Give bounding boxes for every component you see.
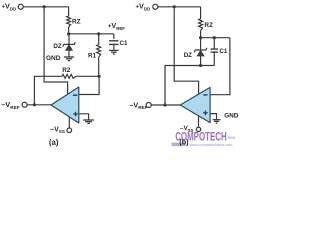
-VREF terminal (b) [146, 103, 151, 108]
resistor RZ (a) [67, 16, 71, 27]
wire C1 top (b) [213, 38, 215, 49]
svg-text:C1: C1 [219, 48, 227, 55]
svg-text:RZ: RZ [72, 18, 81, 25]
svg-text:GND: GND [224, 112, 239, 119]
+VDD terminal (b) [153, 4, 158, 9]
-VSS terminal (a) [67, 128, 72, 133]
svg-text:GND: GND [46, 55, 61, 62]
resistor R2 (a) [62, 74, 76, 78]
watermark COMPOTECH Asia [172, 130, 236, 148]
wire DZ to ground (a) [68, 50, 70, 56]
wire R2 to inverting node (a) [76, 75, 99, 77]
wire feedback to inverting input (b) [210, 38, 230, 95]
wire C1 to ground (a) [113, 44, 115, 50]
wire R1 top (a) [98, 34, 100, 45]
svg-text:RZ: RZ [204, 22, 213, 29]
wire output (b) [151, 104, 180, 106]
svg-text:(a): (a) [49, 138, 59, 147]
wire +VDD rail (a) [23, 6, 69, 8]
wire node rail (b) [201, 37, 230, 39]
capacitor C1 (a) [109, 41, 118, 45]
wire output to R2 (a) [34, 76, 62, 105]
junction DZ anode on rail (b) [199, 64, 202, 67]
svg-text:C1: C1 [120, 40, 128, 47]
zener diode DZ (b) [194, 48, 207, 56]
svg-text:DZ: DZ [184, 52, 192, 59]
node RZ/DZ junction (b) [199, 36, 202, 39]
wire node to DZ (b) [200, 38, 202, 50]
resistor R1 (a) [97, 45, 101, 58]
op-amp U1 (a) [51, 87, 79, 123]
wire R1 bottom (a) [98, 57, 100, 76]
svg-text:Asia: Asia [228, 135, 236, 140]
svg-text:R2: R2 [62, 67, 71, 74]
wire output (a) [27, 104, 51, 106]
ground at + input (a) [83, 120, 94, 123]
svg-text:R1: R1 [88, 53, 97, 60]
wire C1 top (a) [113, 34, 115, 39]
wire RZ top (a) [68, 7, 70, 16]
wire inverting input (a) [79, 76, 99, 94]
wire non-inverting input to ground (a) [79, 114, 89, 120]
wire node to DZ (a) [68, 34, 70, 44]
wire DZ to rail (b) [200, 56, 202, 66]
-VSS terminal (b) [196, 127, 200, 131]
wire RZ top (b) [200, 7, 202, 19]
capacitor C1 (b) [211, 49, 218, 52]
junction output/feedback (a) [33, 103, 36, 106]
ground below C1 (a) [109, 50, 118, 54]
+VDD terminal (a) [18, 4, 23, 9]
junction C1 top (b) [213, 36, 216, 39]
wire RZ bottom (a) [68, 27, 70, 34]
ground at + input (b) [213, 120, 221, 123]
wire C1 bottom (b) [213, 52, 215, 65]
wire +VDD rail (b) [158, 6, 201, 8]
svg-text:(b): (b) [179, 137, 189, 146]
node zener/RZ junction (a) [67, 32, 70, 35]
wire zener rail to output (b) [165, 66, 214, 106]
svg-text:www.compotechasia.com: www.compotechasia.com [189, 142, 233, 147]
wire +VDD to op-amp V+ pin (b) [174, 7, 198, 95]
-VREF terminal (a) [22, 102, 27, 107]
node R1/R2/inverting input (a) [98, 75, 101, 78]
wire +VDD to op-amp V+ pin (a) [44, 7, 68, 95]
ground below DZ (a) [64, 57, 74, 61]
junction R1 top (a) [97, 32, 100, 35]
junction +VDD rail (a) [43, 5, 46, 8]
zener diode DZ (a) [63, 42, 76, 50]
junction output/rail (b) [163, 103, 166, 106]
svg-text:DZ: DZ [53, 43, 61, 50]
wire RZ bottom (b) [200, 31, 202, 38]
resistor RZ (b) [199, 19, 203, 31]
wire -VSS stub (b) [198, 116, 200, 127]
wire -VSS stub (a) [68, 117, 70, 128]
junction +VDD rail (b) [173, 5, 176, 8]
op-amp U2 (b) [180, 87, 210, 122]
wire node to C1 (a) [69, 33, 114, 35]
wire non-inverting input to ground (b) [210, 114, 216, 120]
